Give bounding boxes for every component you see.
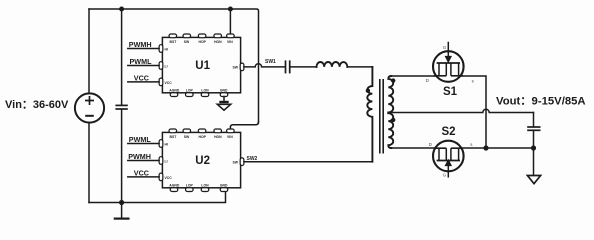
inductor L1 <box>317 62 348 67</box>
svg-text:VCC: VCC <box>165 176 173 180</box>
pin LI U1 <box>159 62 167 70</box>
svg-text:Vout：9-15V/85A: Vout：9-15V/85A <box>496 96 586 108</box>
pin SW-right U2 <box>233 158 244 166</box>
wire PWML to HI U2 <box>128 143 159 145</box>
transformer primary phasing dot <box>366 89 370 93</box>
pin SW-right U1 <box>233 63 244 71</box>
pin AGND U2 <box>169 184 180 192</box>
pin GND U1 <box>220 89 228 97</box>
svg-text:GND: GND <box>220 184 228 188</box>
svg-text:SW: SW <box>233 66 239 70</box>
svg-text:LON: LON <box>201 184 209 188</box>
pin HI U2 <box>159 140 168 148</box>
svg-text:HI: HI <box>165 48 168 52</box>
svg-text:PWML: PWML <box>129 135 152 144</box>
node junction bottom-left <box>119 200 124 205</box>
transformer core <box>380 79 383 154</box>
transistor S1 MOSFET <box>433 43 464 82</box>
wire input cap branch top <box>121 9 123 105</box>
pin LON U2 <box>201 184 209 192</box>
wire PWMH to HI <box>128 48 159 50</box>
capacitor C2 series <box>286 60 290 73</box>
pin LI U2 <box>159 157 167 165</box>
svg-text:S1: S1 <box>443 86 458 98</box>
op-amp U2 driver IC <box>162 132 240 187</box>
node junction VIN U1 <box>228 7 233 12</box>
pin SW-top U1 <box>183 34 191 44</box>
svg-text:GND: GND <box>220 89 228 93</box>
voltage source V1 Vin <box>75 93 104 122</box>
svg-text:SW1: SW1 <box>265 59 276 65</box>
wire secondary top to S1 drain <box>391 75 437 77</box>
pin GND U2 <box>220 184 228 192</box>
svg-text:SW: SW <box>184 135 190 139</box>
transformer secondary top winding <box>388 76 393 113</box>
wire PWML to LI <box>128 65 159 67</box>
svg-text:LON: LON <box>201 89 209 93</box>
svg-text:S2: S2 <box>442 126 456 138</box>
node junction S1 source / S2 source <box>483 145 488 150</box>
wire left rail bottom <box>88 123 90 203</box>
transformer T1 primary winding <box>367 67 372 162</box>
svg-text:HOP: HOP <box>199 40 207 44</box>
svg-text:HON: HON <box>214 40 222 44</box>
svg-text:BST: BST <box>170 40 178 44</box>
svg-text:VCC: VCC <box>165 81 173 85</box>
wire S1 source to output vertical <box>460 76 486 148</box>
wire SW2 from U2 to transformer <box>244 161 373 163</box>
svg-text:LI: LI <box>165 65 168 69</box>
capacitor C3 output <box>527 127 540 130</box>
pin LOP U1 <box>186 89 194 97</box>
svg-text:LI: LI <box>165 160 168 164</box>
pin VCC U2 <box>159 173 172 181</box>
pin HI U1 <box>159 45 168 53</box>
wire bottom rail <box>89 191 226 202</box>
svg-text:HON: HON <box>214 135 222 139</box>
wire VCC to VCC pin <box>128 81 159 83</box>
svg-text:PWMH: PWMH <box>129 40 152 49</box>
wire VIN drop to U1 <box>229 9 231 34</box>
pin AGND U1 <box>169 89 180 97</box>
transformer secondary top phasing dot <box>391 78 395 82</box>
pin HOP U2 <box>198 129 206 139</box>
wire secondary bottom to S2 drain <box>391 147 433 149</box>
node junction top-left <box>119 7 124 12</box>
svg-text:VIN: VIN <box>227 135 233 139</box>
svg-text:LOP: LOP <box>186 184 194 188</box>
wire top rail <box>89 9 259 122</box>
svg-text:SW2: SW2 <box>247 156 258 162</box>
svg-text:VIN: VIN <box>227 40 233 44</box>
pin VIN U1 <box>227 34 235 44</box>
pin HOP U1 <box>198 34 206 44</box>
pin HON U2 <box>214 129 222 139</box>
svg-text:SW: SW <box>233 161 239 165</box>
ground output triangle <box>527 176 540 184</box>
ground bar-type at bottom rail <box>114 203 130 219</box>
node junction output cap <box>531 145 536 150</box>
svg-text:VCC: VCC <box>134 73 149 82</box>
svg-text:LOP: LOP <box>186 89 194 93</box>
wire ground stub output <box>533 148 535 175</box>
transistor S2 MOSFET <box>433 141 464 177</box>
svg-text:D: D <box>429 142 432 147</box>
svg-text:Vin：36-60V: Vin：36-60V <box>5 99 69 111</box>
pin SW-top U2 <box>183 129 191 139</box>
wire SW1 from U1 with hop over VIN line <box>244 64 285 67</box>
pin BST U1 <box>169 34 177 44</box>
wire VCC to VCC pin U2 <box>128 176 159 178</box>
capacitor C1 input <box>115 105 127 109</box>
svg-text:AGND: AGND <box>169 89 180 93</box>
wire cap to inductor <box>291 66 317 68</box>
wire cap to bottom node <box>533 131 535 148</box>
pin VIN U2 <box>227 129 235 139</box>
svg-text:BST: BST <box>170 135 178 139</box>
wire Vout down to cap <box>533 113 535 127</box>
ground U1 signal ground <box>217 102 230 110</box>
wire PWMH to LI U2 <box>128 160 159 162</box>
svg-text:U1: U1 <box>195 60 210 72</box>
wire U2 VIN feed <box>230 122 258 129</box>
svg-text:SW: SW <box>184 40 190 44</box>
svg-text:U2: U2 <box>195 155 210 167</box>
wire center tap to output with hop <box>388 109 533 112</box>
svg-text:PWMH: PWMH <box>128 152 151 161</box>
op-amp U1 driver IC <box>162 37 240 92</box>
svg-text:AGND: AGND <box>169 184 180 188</box>
wire inductor to transformer primary <box>347 66 372 68</box>
svg-text:HI: HI <box>165 143 168 147</box>
wire U1 GND stub <box>223 97 225 102</box>
pin LOP U2 <box>186 184 194 192</box>
pin HON U1 <box>214 34 222 44</box>
pin BST U2 <box>169 129 177 139</box>
svg-text:G: G <box>443 45 447 50</box>
pin VCC U1 <box>159 78 172 86</box>
svg-text:PWML: PWML <box>130 57 153 66</box>
transformer secondary bottom phasing dot <box>391 118 395 122</box>
pin LON U1 <box>201 89 209 97</box>
wire S2 source to output <box>463 147 534 149</box>
svg-text:VCC: VCC <box>134 168 149 177</box>
svg-text:G: G <box>443 172 447 177</box>
wire input cap branch bottom <box>121 110 123 203</box>
svg-text:HOP: HOP <box>199 135 207 139</box>
wire left rail top <box>88 9 90 94</box>
svg-text:D: D <box>426 78 429 83</box>
transformer secondary bottom winding <box>388 113 393 148</box>
